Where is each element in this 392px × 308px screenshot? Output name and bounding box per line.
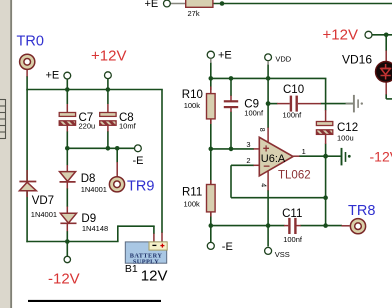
svg-text:1N4148: 1N4148 bbox=[82, 224, 108, 233]
svg-text:100u: 100u bbox=[337, 134, 354, 143]
svg-text:-E: -E bbox=[133, 155, 144, 167]
svg-text:TL062: TL062 bbox=[278, 170, 311, 182]
svg-text:TR0: TR0 bbox=[17, 34, 44, 50]
svg-text:+12V: +12V bbox=[91, 48, 126, 65]
svg-text:1N4001: 1N4001 bbox=[81, 185, 107, 194]
svg-text:100nf: 100nf bbox=[283, 235, 303, 244]
svg-text:R10: R10 bbox=[182, 89, 203, 101]
svg-text:C11: C11 bbox=[282, 208, 302, 220]
svg-text:VSS: VSS bbox=[275, 250, 290, 259]
svg-text:D8: D8 bbox=[81, 173, 96, 185]
svg-text:-E: -E bbox=[222, 241, 233, 253]
svg-text:1N4001: 1N4001 bbox=[31, 210, 57, 219]
svg-text:220u: 220u bbox=[79, 122, 96, 131]
svg-text:100k: 100k bbox=[184, 200, 201, 209]
svg-text:VD16: VD16 bbox=[342, 53, 372, 67]
svg-text:+12V: +12V bbox=[323, 27, 358, 44]
svg-text:-12V: -12V bbox=[370, 149, 392, 165]
svg-text:C10: C10 bbox=[283, 84, 304, 96]
svg-text:+E: +E bbox=[46, 70, 60, 82]
svg-text:VDD: VDD bbox=[275, 55, 291, 64]
svg-text:3: 3 bbox=[246, 140, 250, 149]
svg-text:TR9: TR9 bbox=[127, 179, 154, 195]
svg-text:100k: 100k bbox=[184, 101, 201, 110]
svg-text:C12: C12 bbox=[337, 122, 358, 134]
svg-text:4: 4 bbox=[259, 183, 266, 187]
svg-text:-12V: -12V bbox=[48, 271, 80, 288]
svg-text:27k: 27k bbox=[188, 9, 200, 18]
svg-text:VD7: VD7 bbox=[32, 195, 54, 207]
svg-text:TR8: TR8 bbox=[348, 203, 375, 219]
svg-text:100nf: 100nf bbox=[244, 109, 264, 118]
svg-text:10mf: 10mf bbox=[119, 121, 137, 130]
svg-text:1: 1 bbox=[302, 147, 306, 156]
svg-text:U6:A: U6:A bbox=[261, 153, 286, 165]
svg-text:R11: R11 bbox=[182, 187, 202, 199]
svg-text:12V: 12V bbox=[141, 268, 168, 285]
svg-text:2: 2 bbox=[246, 156, 250, 165]
svg-text:100nf: 100nf bbox=[283, 111, 303, 120]
svg-text:+E: +E bbox=[218, 50, 232, 62]
svg-text:8: 8 bbox=[258, 128, 265, 132]
svg-text:+E: +E bbox=[145, 0, 159, 10]
svg-text:B1: B1 bbox=[125, 263, 138, 275]
